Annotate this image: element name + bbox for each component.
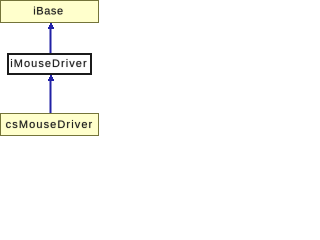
- inheritance arrow iMouseDriver -> iBase: [48, 23, 54, 53]
- inheritance arrow csMouseDriver -> iMouseDriver: [48, 75, 54, 113]
- class box iBase: [0, 0, 99, 23]
- class box iMouseDriver: [7, 53, 92, 75]
- class box csMouseDriver: [0, 113, 99, 136]
